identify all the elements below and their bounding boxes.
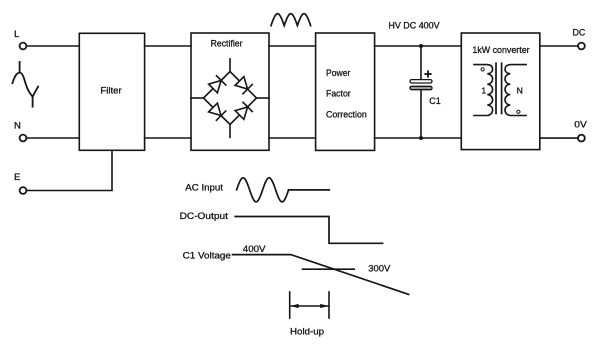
svg-text:HV DC 400V: HV DC 400V <box>388 20 439 30</box>
svg-text:AC Input: AC Input <box>185 183 223 193</box>
svg-text:Power: Power <box>326 68 350 78</box>
svg-text:300V: 300V <box>368 264 390 274</box>
svg-text:N: N <box>517 86 523 96</box>
svg-text:N: N <box>14 120 21 131</box>
svg-text:Rectifier: Rectifier <box>211 38 243 48</box>
svg-text:1: 1 <box>481 86 486 96</box>
svg-text:E: E <box>14 172 20 183</box>
svg-text:Hold-up: Hold-up <box>290 327 324 337</box>
svg-text:400V: 400V <box>243 244 266 254</box>
svg-text:Filter: Filter <box>100 85 121 95</box>
svg-text:DC: DC <box>573 27 586 37</box>
svg-text:L: L <box>14 29 19 40</box>
svg-text:0V: 0V <box>574 119 587 129</box>
svg-text:Correction: Correction <box>326 110 367 120</box>
svg-text:Factor: Factor <box>326 89 351 99</box>
svg-text:C1: C1 <box>429 96 440 106</box>
svg-text:1kW converter: 1kW converter <box>472 45 529 55</box>
svg-text:C1 Voltage: C1 Voltage <box>183 250 231 260</box>
svg-text:DC-Output: DC-Output <box>180 211 229 221</box>
